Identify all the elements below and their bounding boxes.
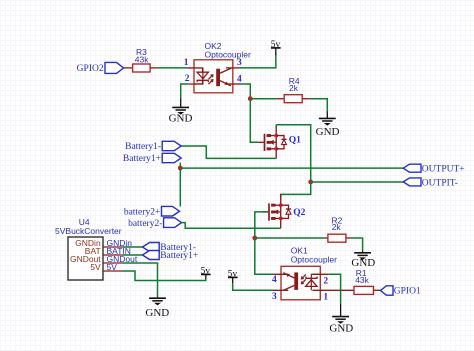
wire Battery1+ down to junction (179, 163, 181, 168)
svg-text:GPIO2: GPIO2 (77, 64, 104, 74)
port OUTPIT- (403, 178, 458, 188)
svg-text:Battery1+: Battery1+ (160, 251, 198, 261)
wire junction down to OK1 pin4 (255, 238, 273, 274)
svg-text:Q1: Q1 (289, 136, 301, 146)
wire OUTPUT+ line (180, 167, 403, 169)
port battery2+ (124, 206, 180, 217)
svg-text:5VBuckConverter: 5VBuckConverter (55, 226, 122, 236)
wire U4 BAT to port (123, 254, 143, 256)
OK2 LED (202, 68, 204, 80)
svg-text:OUTPUT+: OUTPUT+ (422, 165, 465, 175)
wire U4 5V to 5v power (123, 271, 206, 281)
wire Battery1- to Q1 source (181, 146, 276, 158)
port GPIO2 (77, 62, 124, 74)
svg-text:Q2: Q2 (293, 208, 305, 218)
junction node on OUTPIT- line (308, 180, 313, 185)
svg-text:GPIO1: GPIO1 (394, 287, 421, 297)
transistor Q2 (263, 194, 306, 228)
optocoupler OK1 (272, 246, 354, 303)
ground GND under OK2 (169, 99, 193, 125)
svg-text:1: 1 (323, 293, 328, 303)
resistor R4 (284, 76, 302, 103)
wire R4 to GND (302, 98, 310, 100)
wire GPIO2 to R3 (124, 67, 133, 69)
resistor R3 (133, 47, 151, 72)
svg-text:GND: GND (169, 112, 193, 124)
junction node Q2 gate / R2 / OK1 (252, 236, 257, 241)
port Battery1- at U4 (143, 243, 197, 254)
svg-text:5v: 5v (201, 266, 211, 276)
wire U4 GNDin to port (123, 246, 143, 248)
svg-text:Optocoupler: Optocoupler (205, 49, 251, 59)
svg-text:Battery1+: Battery1+ (123, 154, 161, 164)
wire R1 to GPIO1 (374, 289, 381, 291)
optocoupler OK2 (184, 41, 251, 93)
junction node Battery1+ / OUTPUT+ / battery2+ (178, 166, 183, 171)
junction node at OK2 pin4 / R4 / Q1 gate (248, 96, 253, 101)
svg-text:GND: GND (329, 322, 353, 334)
OK1 LED (310, 278, 312, 290)
wire R3 to OK2 pin 1 (150, 67, 158, 69)
port GPIO1 (381, 286, 421, 297)
power 5v top (271, 40, 281, 56)
svg-text:5V: 5V (107, 262, 118, 272)
power 5v left of OK1 (228, 269, 238, 283)
svg-text:GND: GND (316, 126, 340, 138)
wire OUTPIT- line (311, 181, 404, 183)
OK1 pin 4 (273, 273, 288, 275)
OK1 phototransistor (294, 272, 298, 290)
resistor R2 (328, 215, 346, 242)
U4 pin GNDin (103, 246, 123, 248)
svg-text:43k: 43k (135, 54, 149, 64)
ground GND under U4 GNDout (145, 297, 169, 319)
svg-text:battery2-: battery2- (128, 219, 162, 229)
svg-text:2: 2 (323, 277, 328, 287)
wire junction down to battery2+ (179, 168, 181, 206)
U4 pin 5V (103, 270, 123, 272)
wire OK1 pin2 to GND (328, 274, 340, 303)
resistor R1 (354, 268, 374, 294)
OK2 pin 1 (188, 68, 203, 72)
svg-text:3: 3 (272, 292, 277, 302)
svg-text:2k: 2k (289, 83, 299, 93)
ground GND right of R4 (316, 112, 340, 139)
wire 5v to OK1 pin3 (233, 283, 273, 290)
wire OK2 pin2 to GND (181, 84, 188, 99)
svg-text:5v: 5v (228, 269, 238, 279)
OK2 phototransistor (216, 69, 220, 87)
svg-text:4: 4 (237, 75, 242, 85)
svg-text:Optocoupler: Optocoupler (291, 254, 337, 264)
wire battery2- to Q2 source (182, 223, 281, 229)
ground GND under R2 (351, 251, 375, 269)
svg-text:3: 3 (237, 58, 242, 68)
svg-text:2k: 2k (332, 222, 342, 232)
svg-text:4: 4 (272, 275, 277, 285)
component U4 5VBuckConverter (55, 217, 123, 280)
svg-text:43k: 43k (355, 275, 369, 285)
svg-text:2: 2 (185, 74, 190, 84)
svg-text:GND: GND (145, 307, 169, 319)
wire OK2 pin4 to junction (240, 84, 251, 99)
U4 pin GNDout (103, 262, 123, 264)
svg-text:battery2+: battery2+ (124, 207, 160, 217)
ground GND under OK1 (329, 303, 353, 334)
wire U4 GNDout to GND (123, 263, 158, 297)
svg-text:Battery1-: Battery1- (125, 142, 161, 152)
svg-text:5V: 5V (90, 262, 101, 272)
svg-text:OUTPIT-: OUTPIT- (422, 178, 458, 188)
port battery2- (128, 218, 181, 229)
port Battery1+ at U4 (143, 251, 199, 262)
wire Q2 gate to junction (255, 212, 268, 238)
OK2 pin 3 (226, 67, 240, 69)
wire OUTPIT- to Q2 drain (281, 182, 311, 200)
OK2 pin 2 (188, 81, 203, 84)
port Battery1+ top (123, 153, 181, 164)
OK2 light arrows (208, 75, 212, 84)
U4 pin BAT (103, 254, 123, 256)
OK1 pin 2 (312, 273, 328, 275)
wire R2 to GND (346, 237, 351, 239)
OK1 light arrows (302, 274, 306, 283)
wire OK2 pin3 to 5v (240, 56, 276, 68)
wire Q1 drain to OUTPIT- (276, 125, 311, 182)
port Battery1- top (125, 141, 181, 152)
port OUTPUT+ (403, 164, 464, 174)
power 5v right of U4 (201, 266, 211, 279)
wire junction down to Q1 gate (250, 99, 258, 143)
OK1 pin 3 (273, 289, 288, 291)
wire junction to R4 (250, 98, 276, 100)
wire junction to R2 (255, 237, 325, 239)
OK2 pin 4 (226, 83, 240, 85)
svg-text:1: 1 (184, 58, 189, 68)
transistor Q1 (258, 125, 301, 159)
svg-text:5v: 5v (271, 40, 281, 50)
OK1 pin 1 (312, 289, 354, 291)
